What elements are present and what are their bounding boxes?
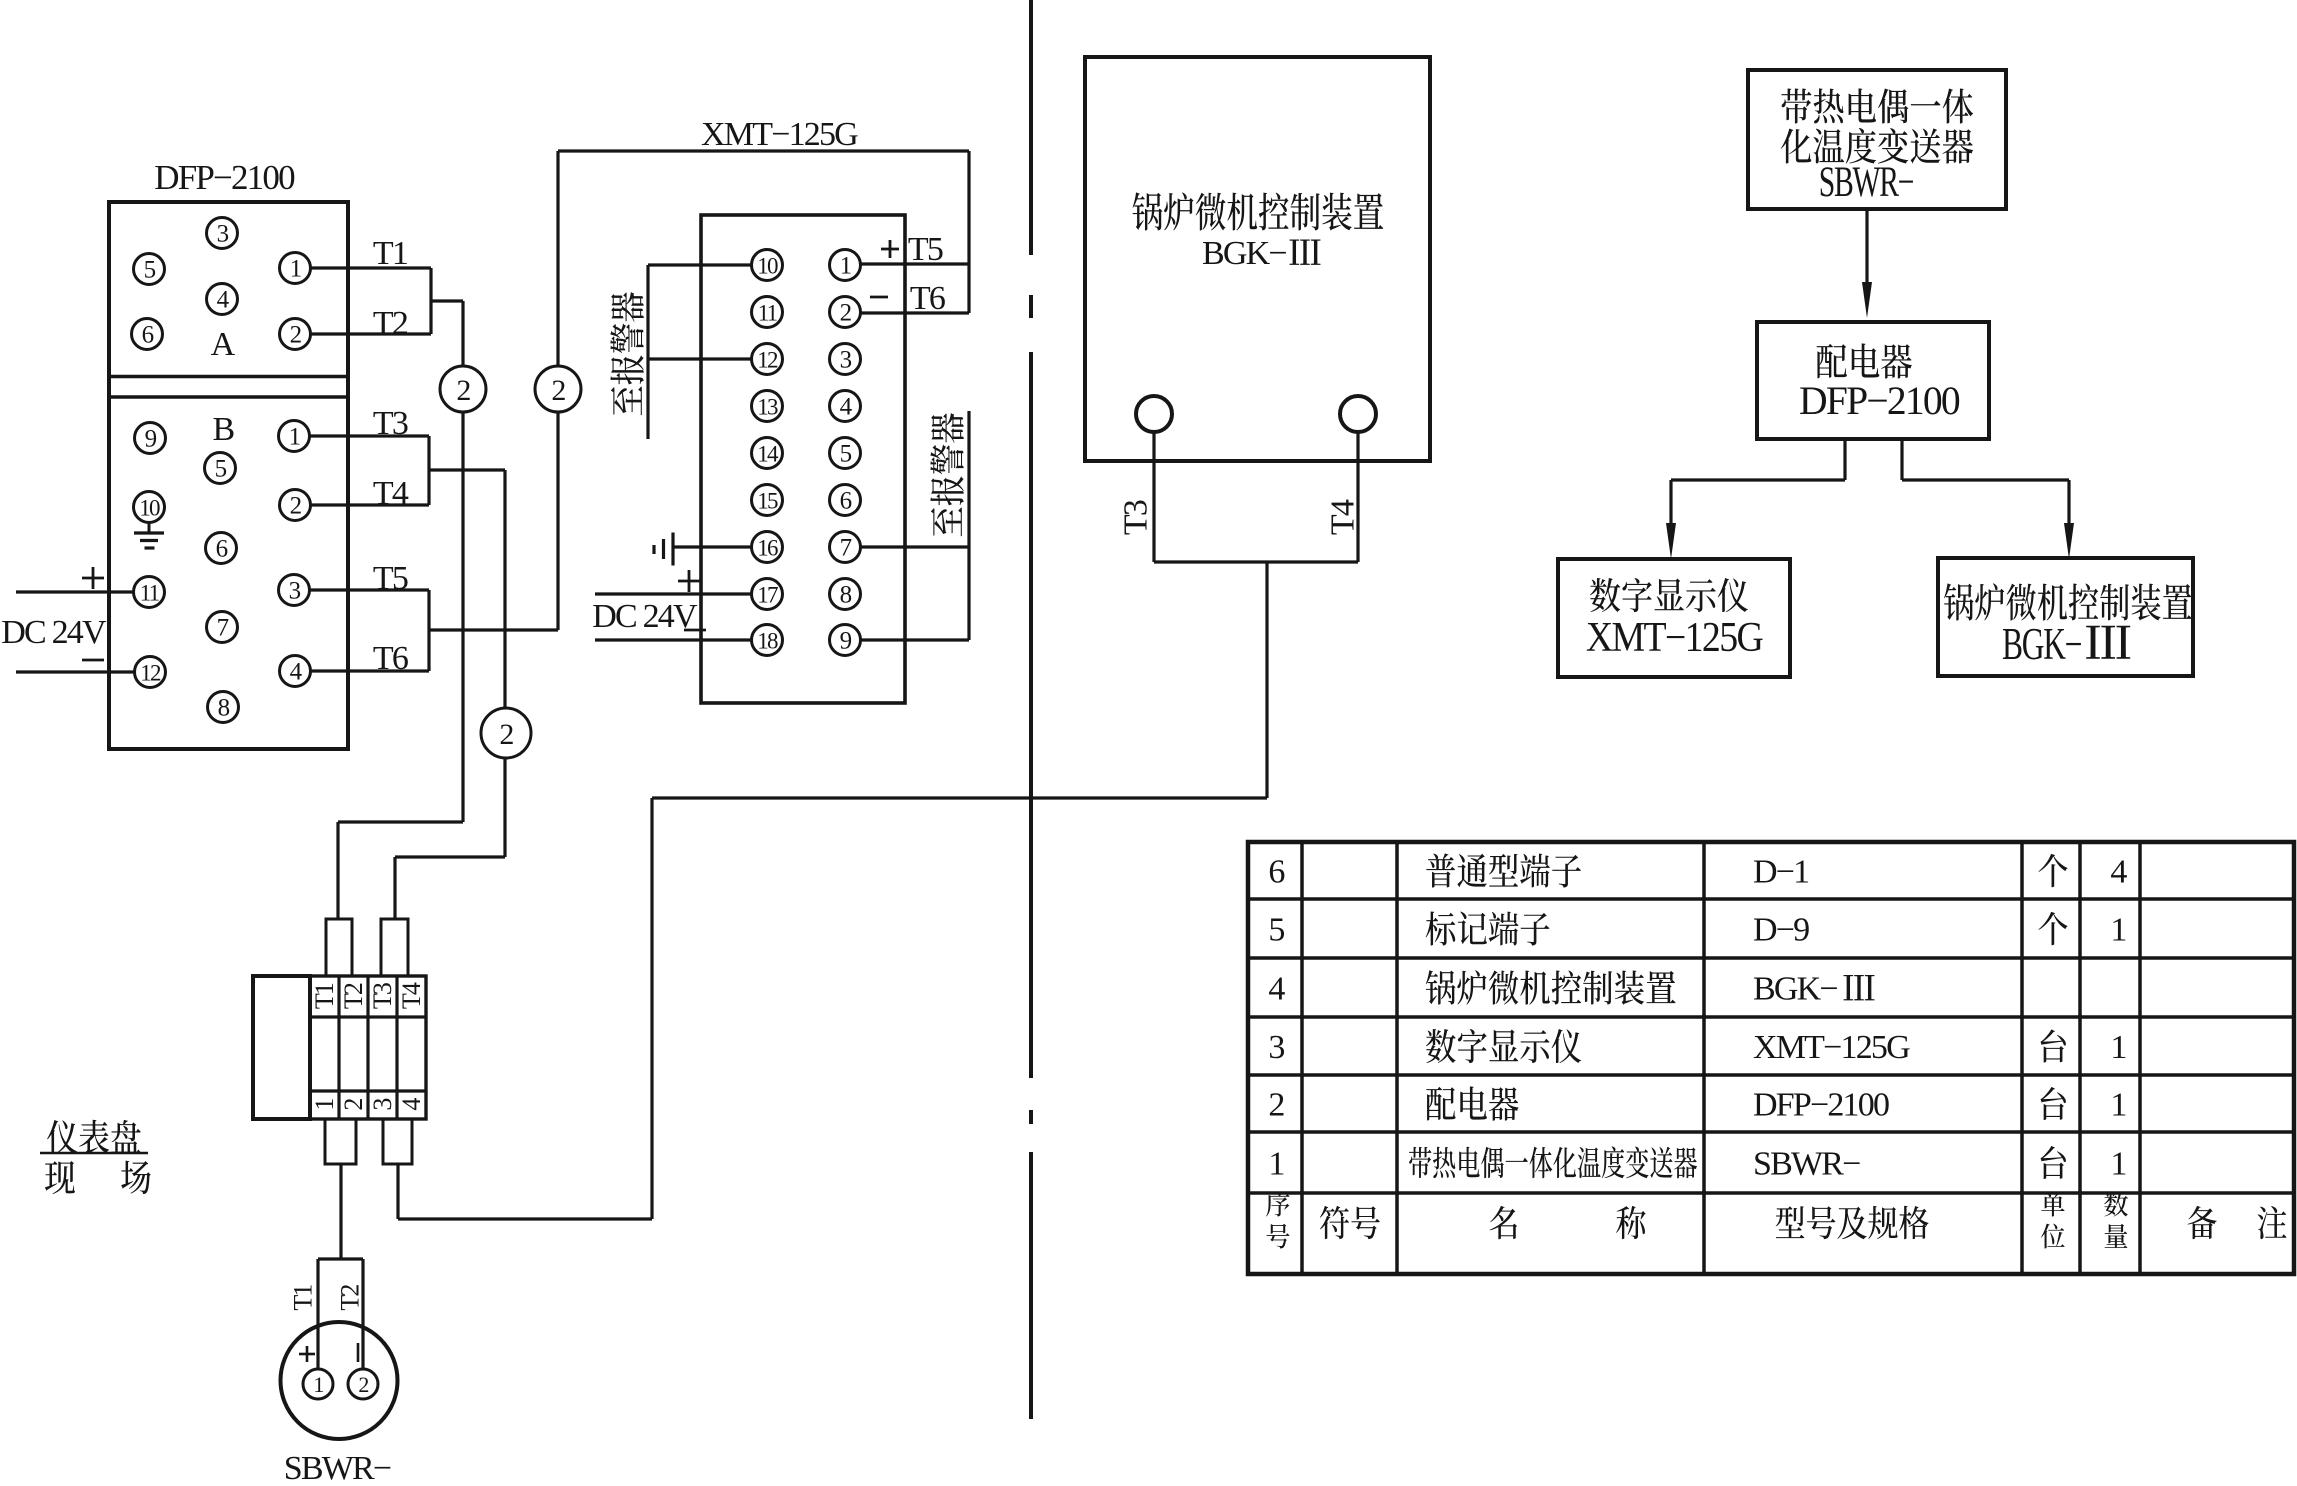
wire BGK T3 <box>1152 432 1155 562</box>
wire XMT 2 (T6-) <box>861 311 970 314</box>
svg-text:3: 3 <box>1268 1029 1284 1066</box>
DFP terminal 5 <box>134 254 165 285</box>
svg-text:7: 7 <box>217 615 229 642</box>
flowchart branch wires <box>1843 439 1846 480</box>
DFP terminal 6 <box>206 533 237 564</box>
XMT terminal 13 <box>752 391 783 422</box>
DFP terminal 11 <box>134 577 165 608</box>
svg-text:B: B <box>213 411 235 448</box>
wire DFP A2 (T2) <box>311 332 432 335</box>
wire XMT 18 DC- <box>595 638 752 641</box>
svg-text:D−1: D−1 <box>1753 854 1808 891</box>
svg-text:DFP−2100: DFP−2100 <box>1799 379 1960 423</box>
wire T1/T2 pair bracket <box>429 268 432 334</box>
svg-text:DC 24V: DC 24V <box>592 598 698 635</box>
wire DFP B3 (T5) <box>310 588 430 591</box>
wire T3/T4 pair bracket <box>427 436 430 505</box>
svg-text:T2: T2 <box>373 305 408 342</box>
svg-text:8: 8 <box>218 695 230 722</box>
cable terminal 1/2 down to sensor <box>339 1164 342 1259</box>
svg-text:2: 2 <box>339 1099 368 1111</box>
XMT terminal 14 <box>752 438 783 469</box>
terminal foot label 2 <box>339 1099 368 1111</box>
XMT terminal 3 <box>830 344 861 375</box>
terminal head label T2 <box>339 983 368 1009</box>
sensor terminal 1 <box>303 1369 333 1399</box>
transmitter head <box>318 1257 363 1260</box>
BGK terminal (T4) <box>1340 396 1376 432</box>
svg-text:DFP−2100: DFP−2100 <box>154 158 295 197</box>
svg-text:1: 1 <box>290 256 301 283</box>
svg-text:9: 9 <box>145 426 157 453</box>
XMT terminal 8 <box>830 579 861 610</box>
wire XMT 17 DC+ <box>595 592 752 595</box>
XMT terminal 5 <box>830 438 861 469</box>
svg-text:2: 2 <box>290 493 302 520</box>
svg-text:9: 9 <box>840 628 852 655</box>
svg-text:1: 1 <box>2110 1029 2125 1066</box>
DFP terminal 3 <box>207 218 238 249</box>
svg-text:13: 13 <box>757 395 778 420</box>
XMT terminal 12 <box>752 344 783 375</box>
flowchart transmitter box <box>1748 70 2006 209</box>
XMT terminal 2 <box>830 297 861 328</box>
signal label T4 <box>1324 499 1361 535</box>
svg-text:10: 10 <box>139 496 160 521</box>
svg-text:8: 8 <box>840 582 852 609</box>
DFP terminal 9 <box>135 423 166 454</box>
wire T5/T6 pair bracket <box>427 590 430 671</box>
XMT terminal 10 <box>752 250 783 281</box>
sensor terminal 2 <box>348 1369 378 1399</box>
svg-text:14: 14 <box>757 442 779 467</box>
cable stub T5/T6 <box>429 628 558 631</box>
svg-text:10: 10 <box>757 254 778 279</box>
DFP terminal 2 <box>280 319 311 350</box>
terminal foot label 3 <box>368 1099 397 1111</box>
flowchart arrow transmitter to distributor <box>1865 209 1868 292</box>
terminal lug upper T1/T2 <box>326 919 352 976</box>
svg-text:2: 2 <box>358 1372 368 1397</box>
terminal foot label 4 <box>397 1098 426 1111</box>
parts list table grid <box>1248 842 2294 1274</box>
svg-text:SBWR−: SBWR− <box>1819 158 1914 206</box>
svg-text:1: 1 <box>840 253 851 280</box>
DFP terminal 12 <box>135 657 166 688</box>
wire DFP B4 (T6) <box>311 669 430 672</box>
svg-text:6: 6 <box>1268 854 1284 891</box>
XMT terminal 16 <box>752 532 783 563</box>
cable stub T1/T2 <box>431 299 463 302</box>
wire XMT 1 (T5+) <box>861 262 970 265</box>
minus sign <box>870 296 888 299</box>
svg-text:4: 4 <box>2110 854 2127 891</box>
terminal head label T3 <box>368 983 397 1009</box>
svg-text:2: 2 <box>1268 1087 1284 1124</box>
DFP terminal 6 <box>132 319 163 350</box>
panel/field divider label <box>47 1120 77 1154</box>
signal label T1 <box>289 1285 318 1311</box>
svg-text:3: 3 <box>840 347 852 374</box>
svg-text:BGK−: BGK− <box>1753 971 1837 1008</box>
svg-text:16: 16 <box>757 536 778 561</box>
DFP terminal 1 <box>279 421 310 452</box>
svg-text:XMT−125G: XMT−125G <box>1586 613 1763 660</box>
svg-text:7: 7 <box>840 535 852 562</box>
alarm pair riser <box>967 411 970 640</box>
svg-text:1: 1 <box>2110 912 2125 949</box>
svg-text:2: 2 <box>499 718 513 751</box>
wire BGK T4 <box>1356 432 1359 562</box>
svg-text:5: 5 <box>840 441 852 468</box>
terminal foot label 1 <box>310 1099 339 1111</box>
ground symbol at XMT 16 <box>671 533 674 566</box>
svg-text:2: 2 <box>456 374 470 407</box>
svg-text:1: 1 <box>2110 1087 2125 1124</box>
svg-text:3: 3 <box>217 221 229 248</box>
svg-text:3: 3 <box>289 578 301 605</box>
wire XMT 16 to ground <box>673 545 752 548</box>
arrow to boiler control <box>2064 523 2074 559</box>
terminal head label T4 <box>397 982 426 1009</box>
svg-text:12: 12 <box>757 348 778 373</box>
flowchart boiler control box <box>1938 558 2193 676</box>
XMT terminal 17 <box>752 579 783 610</box>
boiler control BGK-III body <box>1085 57 1430 461</box>
XMT terminal 9 <box>830 625 861 656</box>
svg-text:XMT−125G: XMT−125G <box>701 116 858 153</box>
XMT terminal 1 <box>830 250 861 281</box>
wire DFP B2 (T4) <box>311 503 430 506</box>
svg-text:6: 6 <box>142 322 154 349</box>
terminal head label T1 <box>310 983 339 1009</box>
arrow to display <box>1666 523 1676 559</box>
svg-text:2: 2 <box>290 322 302 349</box>
svg-text:A: A <box>211 326 236 363</box>
cable T1/T2 down to field terminals <box>461 301 464 822</box>
svg-text:T2: T2 <box>339 983 368 1009</box>
distributor DFP-2100 body <box>109 202 348 749</box>
minus sign (rotated) <box>357 1343 360 1362</box>
digital display XMT-125G body <box>701 215 905 703</box>
terminal lug lower 1/2 <box>325 1119 356 1164</box>
wire XMT 7 to alarm <box>861 545 970 548</box>
XMT terminal 6 <box>830 485 861 516</box>
svg-text:4: 4 <box>1268 971 1285 1008</box>
svg-text:T2: T2 <box>336 1285 365 1311</box>
svg-text:T1: T1 <box>289 1285 318 1311</box>
terminal strip body D-1/D-9 <box>310 976 426 1119</box>
svg-text:5: 5 <box>1268 912 1284 949</box>
BGK terminal (T3) <box>1136 396 1172 432</box>
flowchart display box <box>1558 559 1790 677</box>
svg-text:T6: T6 <box>910 280 945 317</box>
svg-text:T3: T3 <box>368 983 397 1009</box>
svg-text:XMT−125G: XMT−125G <box>1753 1029 1910 1066</box>
svg-text:BGK−: BGK− <box>1202 235 1286 272</box>
2-core cable mark <box>535 366 581 412</box>
svg-text:5: 5 <box>144 257 156 284</box>
svg-text:2: 2 <box>551 374 565 407</box>
DFP terminal 1 <box>280 253 311 284</box>
svg-text:18: 18 <box>757 629 778 654</box>
2-core cable mark <box>440 366 486 412</box>
DFP terminal 8 <box>208 692 239 723</box>
flowchart distributor box <box>1757 322 1989 439</box>
svg-text:4: 4 <box>397 1098 426 1111</box>
wire DFP B1 (T3) <box>310 434 430 437</box>
2-core cable mark <box>481 708 531 758</box>
ground symbol at DFP terminal 10 <box>148 523 151 534</box>
minus sign <box>82 659 104 662</box>
XMT terminal 11 <box>752 297 783 328</box>
wire DFP A1 (T1) <box>311 266 432 269</box>
svg-text:15: 15 <box>757 489 778 514</box>
XMT terminal 15 <box>752 485 783 516</box>
svg-text:1: 1 <box>310 1099 339 1111</box>
DFP terminal 4 <box>207 284 238 315</box>
XMT terminal 18 <box>752 625 783 656</box>
wire DC+ to terminal 11 <box>16 590 134 593</box>
plus sign <box>82 577 104 580</box>
svg-text:DFP−2100: DFP−2100 <box>1753 1087 1889 1124</box>
to-alarm label (right) <box>930 413 963 536</box>
svg-text:17: 17 <box>757 583 778 608</box>
svg-text:5: 5 <box>215 456 227 483</box>
wire DC- to terminal 12 <box>16 670 134 673</box>
terminal strip mounting plate <box>253 976 310 1119</box>
minus sign <box>684 629 706 632</box>
svg-text:T1: T1 <box>310 983 339 1009</box>
XMT terminal 4 <box>830 391 861 422</box>
svg-text:SBWR−: SBWR− <box>284 1450 391 1481</box>
svg-text:T4: T4 <box>1324 499 1361 535</box>
svg-text:11: 11 <box>758 301 778 326</box>
sensor SBWR body circle <box>281 1322 398 1439</box>
DFP terminal 7 <box>207 612 238 643</box>
cable BGK to field terminals <box>1265 562 1268 798</box>
svg-text:T5: T5 <box>908 231 943 268</box>
plus sign <box>299 1353 315 1356</box>
to-alarm label (left) <box>610 292 643 415</box>
terminal lug upper T3/T4 <box>381 919 408 976</box>
svg-text:1: 1 <box>2110 1146 2125 1183</box>
svg-text:D−9: D−9 <box>1753 912 1809 949</box>
signal label T3 <box>1117 500 1154 535</box>
plus sign <box>678 580 700 583</box>
cable stub T3/T4 <box>429 468 505 471</box>
svg-text:2: 2 <box>840 300 852 327</box>
boundary chain line (panel/field separator) <box>1029 0 1033 255</box>
DFP terminal 4 <box>280 656 311 687</box>
svg-text:1: 1 <box>289 424 300 451</box>
svg-text:11: 11 <box>140 581 160 606</box>
DFP terminal 5 <box>205 453 236 484</box>
wire XMT 10 to alarm <box>648 263 752 266</box>
svg-text:BGK−: BGK− <box>2002 620 2081 670</box>
boiler control name <box>1133 192 1163 230</box>
signal label T2 <box>336 1285 365 1311</box>
svg-text:T4: T4 <box>397 982 426 1009</box>
svg-text:T3: T3 <box>1117 500 1154 535</box>
terminal lug lower 3/4 <box>383 1119 412 1164</box>
wire XMT 12 to alarm <box>648 357 752 360</box>
XMT terminal 7 <box>830 532 861 563</box>
DFP terminal 3 <box>279 575 310 606</box>
svg-text:6: 6 <box>216 536 228 563</box>
wire BGK pair join <box>1154 560 1358 563</box>
cable T5/T6 up to XMT display <box>556 151 559 630</box>
svg-text:1: 1 <box>313 1372 323 1397</box>
wire XMT 9 to alarm <box>861 638 970 641</box>
svg-text:DC 24V: DC 24V <box>1 614 107 651</box>
section divider <box>109 375 348 379</box>
table header <box>1266 1192 1289 1217</box>
svg-text:6: 6 <box>840 488 852 515</box>
svg-text:1: 1 <box>1268 1146 1283 1183</box>
DFP terminal 2 <box>280 490 311 521</box>
svg-text:3: 3 <box>368 1099 397 1111</box>
svg-text:SBWR−: SBWR− <box>1753 1146 1860 1183</box>
cable T3/T4 down to field terminals <box>503 470 506 857</box>
DFP terminal 10 <box>134 492 165 523</box>
plus sign <box>881 248 899 251</box>
svg-text:12: 12 <box>140 661 161 686</box>
